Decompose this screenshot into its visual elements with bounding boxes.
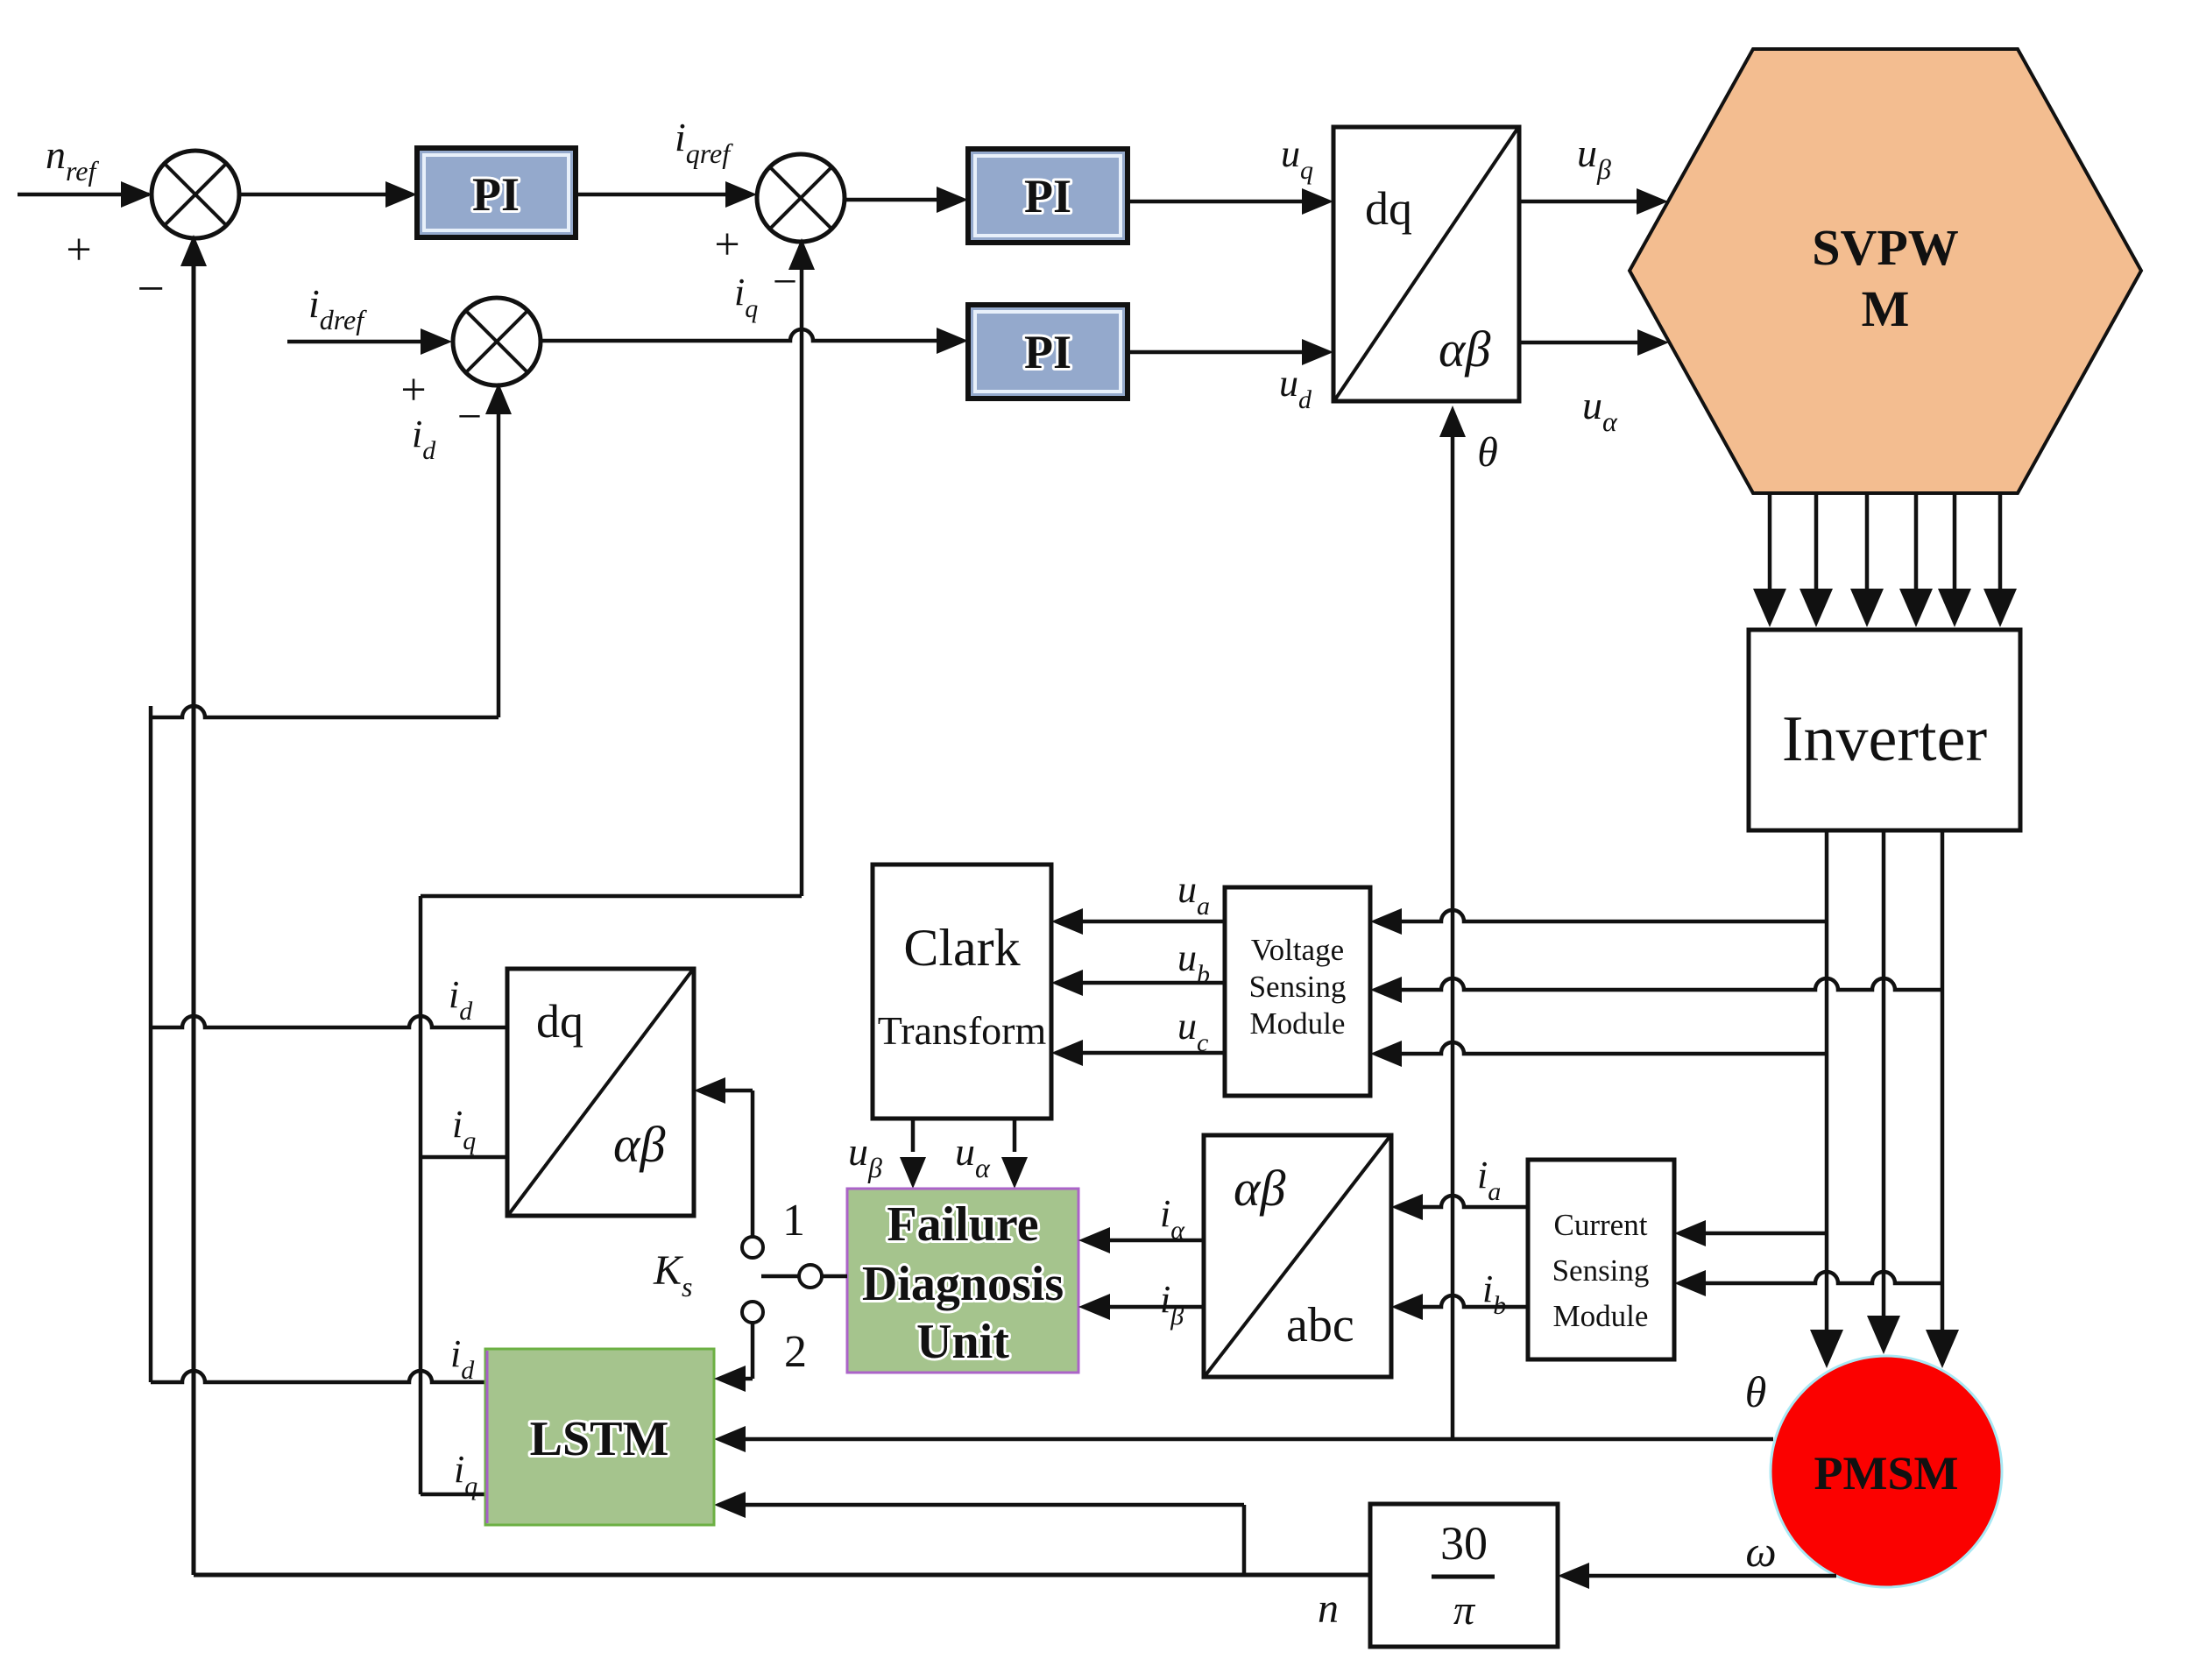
- wire i_d feedback vertical: [149, 717, 153, 1382]
- wire switch position2 to LSTM: [751, 1323, 755, 1379]
- summing junction S2 (q current error): [757, 154, 845, 242]
- wire SVPWM gate signal 1: [1768, 493, 1772, 589]
- wire theta feedback: [719, 1437, 1773, 1442]
- wire n feedback vertical to S1: [192, 244, 196, 1575]
- svg-text:Unit: Unit: [916, 1315, 1009, 1369]
- svg-text:Transform: Transform: [878, 1008, 1047, 1053]
- svg-text:30: 30: [1440, 1517, 1488, 1570]
- wire SVPWM gate signal 5: [1953, 493, 1957, 589]
- svg-text:n: n: [1318, 1585, 1339, 1632]
- wire PI3 to dq box (u_d): [1128, 350, 1328, 355]
- svg-text:PI: PI: [472, 168, 520, 221]
- svg-text:Inverter: Inverter: [1782, 703, 1987, 775]
- wire n_ref input: [18, 193, 149, 197]
- summing junction S3 (d current error): [453, 298, 541, 385]
- svg-text:dq: dq: [536, 995, 583, 1048]
- svg-text:ω: ω: [1745, 1527, 1776, 1576]
- wire PI1 to S2: [576, 193, 752, 197]
- svg-text:Module: Module: [1250, 1006, 1346, 1041]
- svg-text:M: M: [1862, 280, 1910, 337]
- svg-text:Sensing: Sensing: [1249, 970, 1347, 1004]
- block PI2 (iq PI): [968, 149, 1128, 243]
- svg-text:Diagnosis: Diagnosis: [862, 1257, 1064, 1311]
- wire i_q output of dq box: [421, 1155, 507, 1160]
- wire SVPWM gate signal 6: [1998, 493, 2003, 589]
- wire i_q feedback horizontal: [421, 894, 802, 899]
- wire dq to SVPWM (u_alpha): [1519, 341, 1664, 345]
- switch pole: [761, 1274, 799, 1279]
- block ab/abc transform: [1204, 1135, 1391, 1377]
- svg-text:PI: PI: [1024, 326, 1071, 378]
- svg-text:+: +: [66, 225, 91, 275]
- svg-text:π: π: [1453, 1587, 1476, 1634]
- block PI1 (speed PI): [417, 148, 576, 237]
- svg-text:−: −: [137, 262, 165, 316]
- block PMSM motor: [1771, 1356, 2002, 1587]
- wire ab-abc to FDU (i_alpha): [1084, 1239, 1204, 1243]
- svg-text:Current: Current: [1554, 1208, 1648, 1242]
- wire i_d output of dq box: [151, 1016, 507, 1027]
- svg-text:Voltage: Voltage: [1251, 933, 1344, 967]
- svg-text:+: +: [714, 220, 739, 270]
- wire VSM to Clark (u_b): [1057, 981, 1225, 985]
- svg-text:2: 2: [784, 1327, 807, 1377]
- wire S1 to PI1: [240, 193, 412, 197]
- wire SVPWM gate signal 3: [1865, 493, 1870, 589]
- wire S3 to PI3: [541, 329, 963, 341]
- block Current Sensing Module: [1528, 1160, 1674, 1359]
- block Failure Diagnosis Unit: [847, 1189, 1078, 1373]
- svg-text:Failure: Failure: [887, 1197, 1038, 1252]
- svg-text:Sensing: Sensing: [1552, 1253, 1650, 1288]
- wire PI2 to dq box (u_q): [1128, 200, 1328, 204]
- wire n branch to LSTM (omega input): [1242, 1505, 1247, 1575]
- wire SVPWM gate signal 2: [1814, 493, 1819, 589]
- wire Clark to FDU (u_beta): [911, 1119, 916, 1152]
- wire VSM to Clark (u_a): [1057, 920, 1225, 924]
- wire switch position1 to dq box: [751, 1091, 755, 1237]
- wire dq to SVPWM (u_beta): [1519, 200, 1663, 204]
- block dq/ab voltage transform: [1333, 127, 1519, 401]
- svg-text:PI: PI: [1024, 170, 1071, 222]
- block Inverter: [1749, 630, 2020, 830]
- wire omega to 30/pi: [1563, 1574, 1836, 1578]
- svg-text:Clark: Clark: [903, 919, 1020, 977]
- svg-text:+: +: [400, 365, 426, 415]
- block LSTM: [485, 1349, 714, 1525]
- svg-text:αβ: αβ: [1439, 321, 1490, 378]
- wire CSM to ab-abc (i_a): [1396, 1196, 1528, 1207]
- wire ab-abc to FDU (i_beta): [1084, 1305, 1204, 1309]
- block Clark Transform: [873, 865, 1051, 1119]
- wire phase A vertical: [1825, 830, 1829, 1330]
- svg-text:LSTM: LSTM: [530, 1412, 669, 1466]
- wire S2 to PI2: [845, 198, 963, 202]
- wire i_d to LSTM: [151, 1371, 485, 1382]
- svg-text:dq: dq: [1365, 182, 1412, 235]
- wire phase A tap to CSM: [1679, 1232, 1827, 1236]
- switch contact 1: [742, 1237, 763, 1258]
- wire n feedback horizontal: [194, 1573, 1370, 1578]
- wire VSM to Clark (u_c): [1057, 1051, 1225, 1055]
- wire u_a tap to Voltage Sensing Module: [1375, 910, 1827, 921]
- svg-text:θ: θ: [1745, 1367, 1767, 1416]
- svg-text:SVPW: SVPW: [1812, 219, 1959, 276]
- wire i_q feedback vertical: [419, 896, 423, 1494]
- wire i_q feedback up to S2: [800, 247, 804, 896]
- wire theta into dq box: [1451, 411, 1455, 1439]
- svg-text:Module: Module: [1553, 1299, 1649, 1333]
- svg-text:−: −: [457, 392, 482, 441]
- wire i_q to LSTM: [421, 1493, 485, 1497]
- wire Clark to FDU (u_alpha): [1013, 1119, 1017, 1152]
- wire i_d feedback horizontal to S3: [151, 706, 498, 717]
- wire phase C vertical: [1941, 830, 1945, 1330]
- svg-text:αβ: αβ: [613, 1116, 665, 1173]
- block SVPWM hexagon: [1630, 49, 2141, 493]
- block Voltage Sensing Module: [1225, 887, 1370, 1096]
- block PI3 (id PI): [968, 305, 1128, 399]
- wire CSM to ab-abc (i_b): [1396, 1295, 1528, 1307]
- wire SVPWM gate signal 4: [1914, 493, 1919, 589]
- wire u_c tap to Voltage Sensing Module: [1375, 1042, 1827, 1054]
- svg-text:θ: θ: [1477, 429, 1498, 476]
- wire i_dref input: [287, 340, 447, 344]
- svg-text:abc: abc: [1286, 1298, 1354, 1352]
- svg-text:αβ: αβ: [1234, 1160, 1285, 1217]
- wire i_d feedback up to S3: [497, 392, 501, 717]
- svg-text:PMSM: PMSM: [1814, 1447, 1959, 1500]
- wire u_b tap to Voltage Sensing Module: [1375, 978, 1942, 990]
- summing junction S1 (speed error): [152, 151, 239, 238]
- block 30/pi converter: [1370, 1504, 1558, 1647]
- switch contact 2: [742, 1302, 763, 1323]
- svg-text:1: 1: [782, 1196, 805, 1246]
- wire phase B vertical: [1882, 830, 1886, 1316]
- wire phase B tap to CSM: [1679, 1272, 1942, 1283]
- block dq/ab current transform: [507, 969, 694, 1216]
